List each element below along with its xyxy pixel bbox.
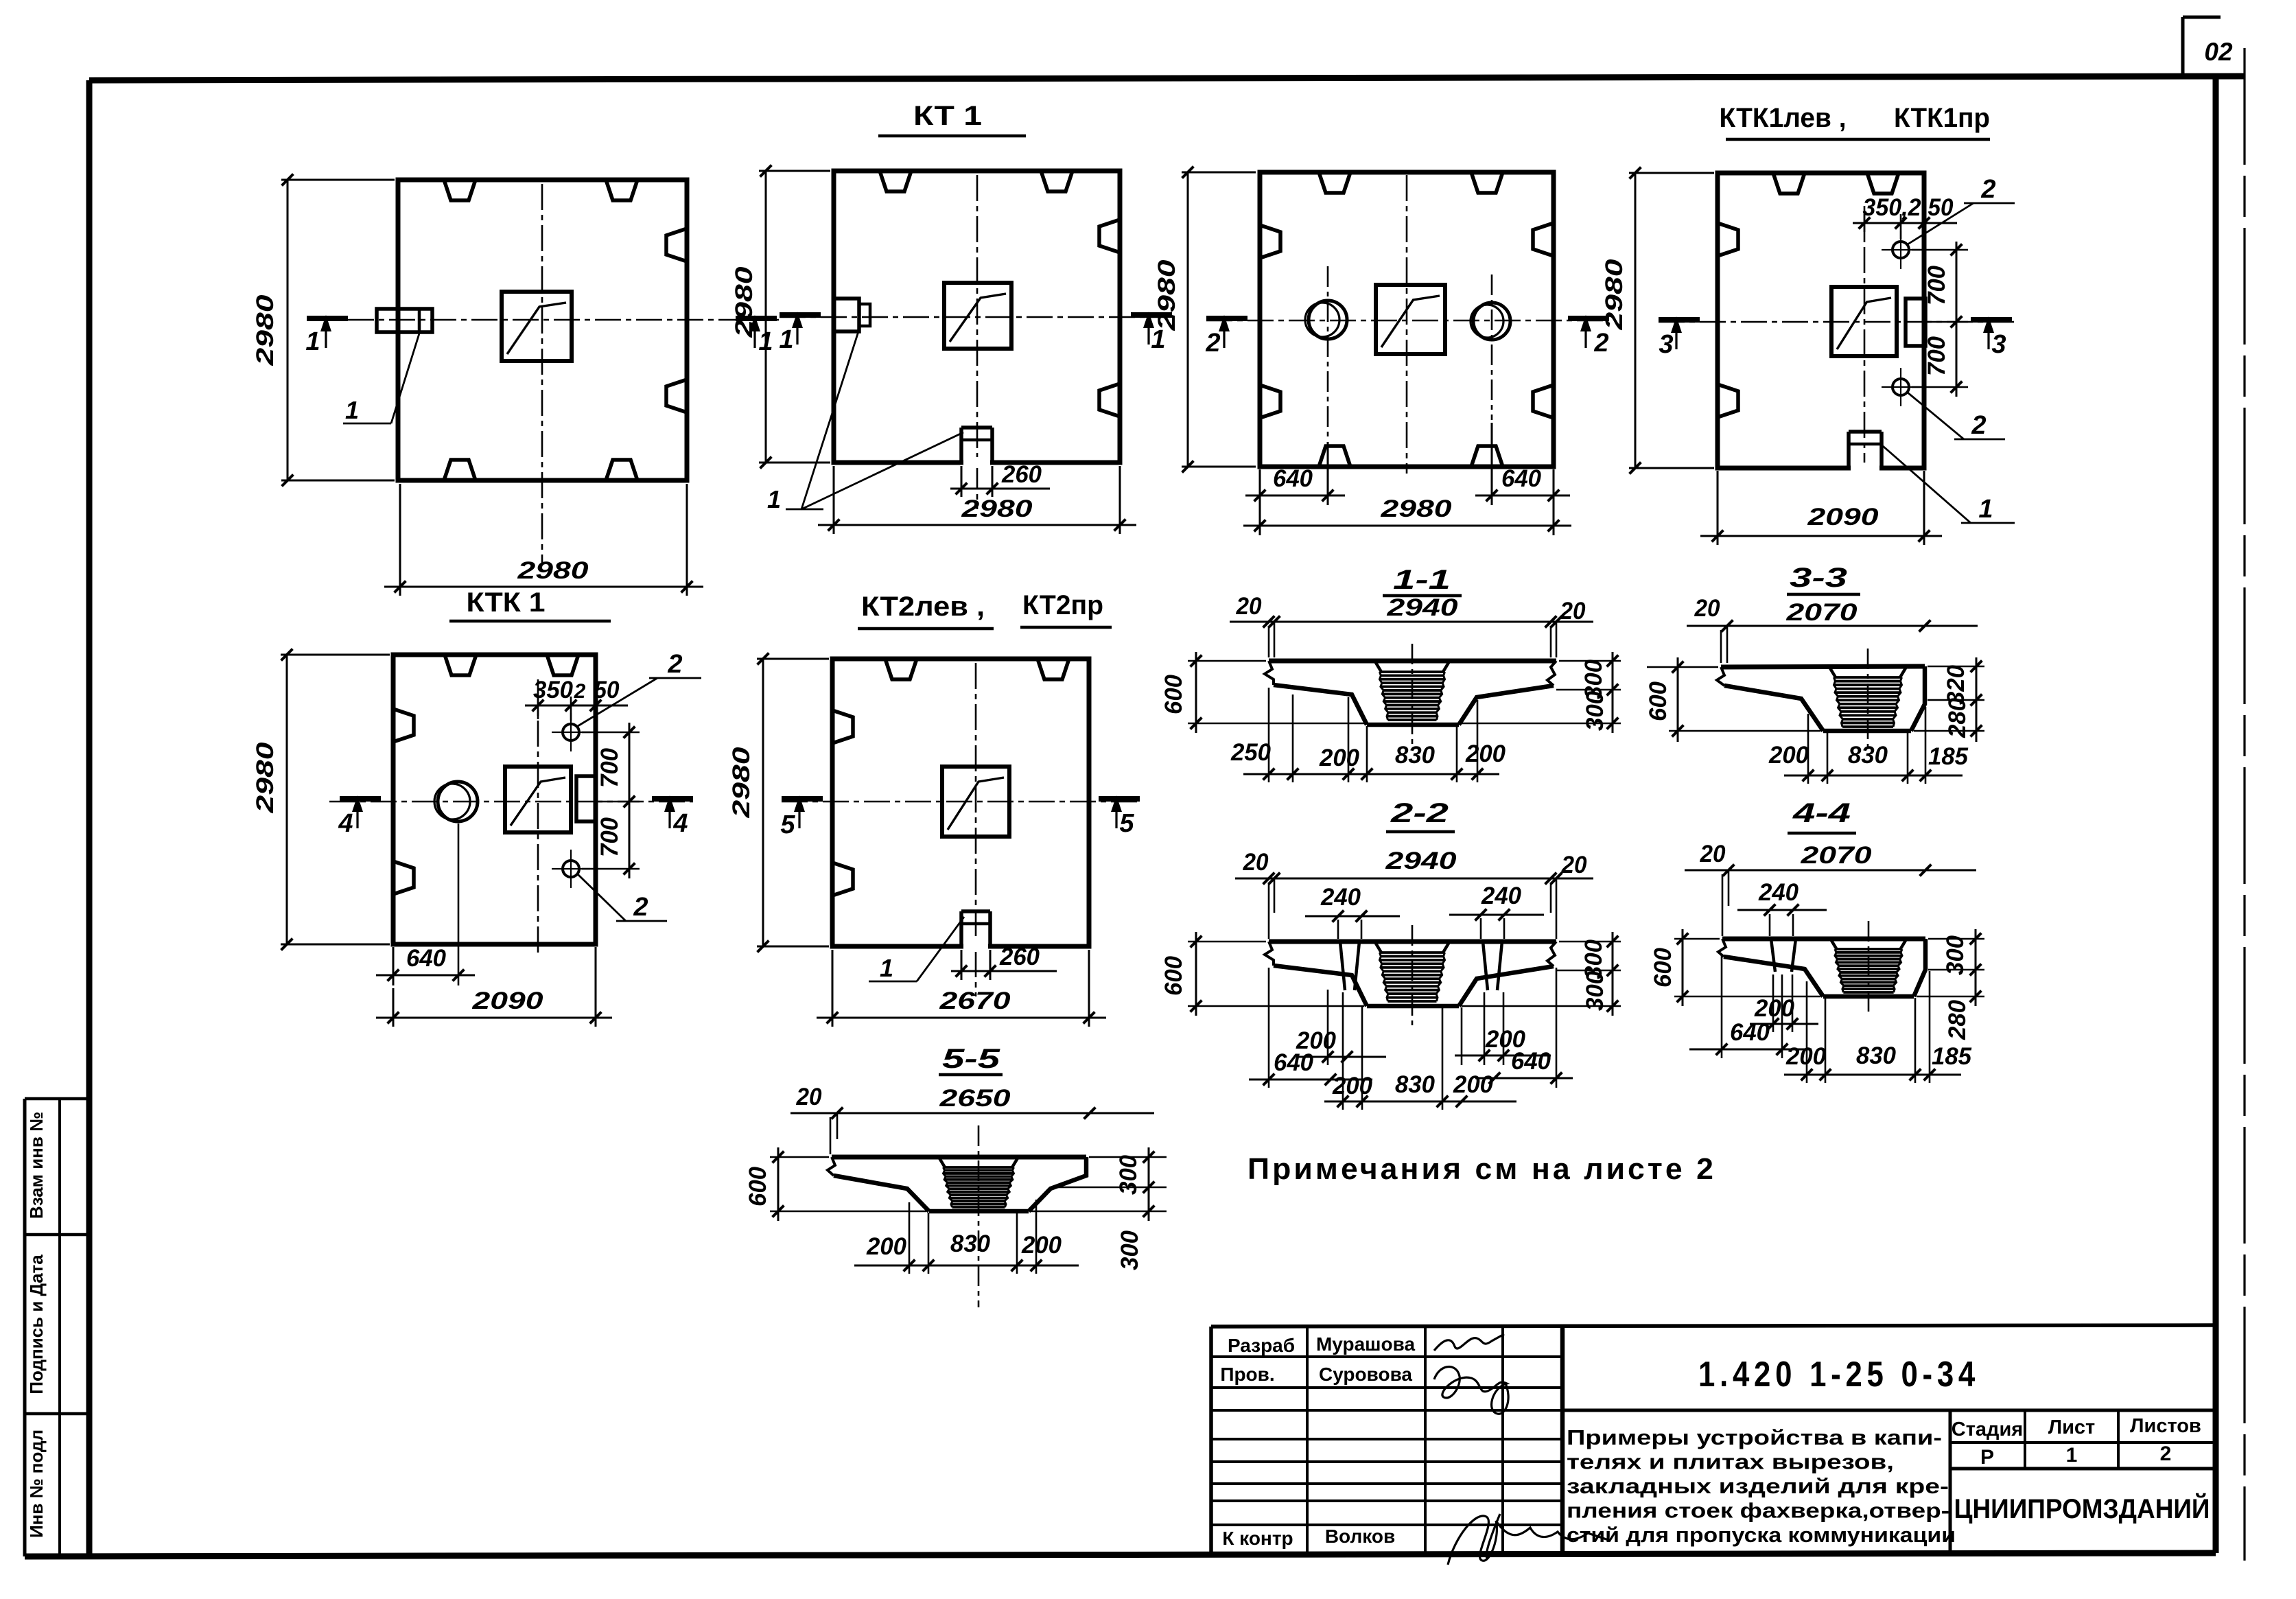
svg-text:2980: 2980 bbox=[252, 742, 279, 814]
svg-text:640: 640 bbox=[1511, 1048, 1551, 1075]
svg-text:50: 50 bbox=[594, 677, 620, 703]
svg-text:280: 280 bbox=[1944, 999, 1971, 1040]
svg-text:1: 1 bbox=[2066, 1444, 2078, 1467]
svg-text:Подпись и Дата: Подпись и Дата bbox=[26, 1254, 47, 1394]
svg-text:640: 640 bbox=[1274, 1049, 1314, 1076]
svg-text:200: 200 bbox=[1319, 745, 1360, 771]
svg-text:250: 250 bbox=[1230, 739, 1272, 766]
svg-text:2: 2 bbox=[1980, 175, 1995, 204]
svg-text:300: 300 bbox=[1115, 1154, 1142, 1195]
svg-text:20: 20 bbox=[1560, 598, 1586, 625]
svg-text:640: 640 bbox=[1273, 465, 1313, 492]
svg-text:ЦНИИПРОМЗДАНИЙ: ЦНИИПРОМЗДАНИЙ bbox=[1954, 1493, 2210, 1524]
svg-text:2980: 2980 bbox=[517, 557, 589, 584]
svg-text:Взам инв №: Взам инв № bbox=[26, 1112, 47, 1219]
svg-text:2070: 2070 bbox=[1785, 599, 1858, 626]
svg-text:КТ 1: КТ 1 bbox=[913, 101, 982, 131]
svg-text:185: 185 bbox=[1928, 743, 1969, 770]
svg-text:2090: 2090 bbox=[1807, 504, 1879, 530]
svg-text:200: 200 bbox=[1465, 740, 1506, 767]
svg-text:260: 260 bbox=[999, 944, 1040, 970]
svg-text:пления стоек фахверка,отвер-: пления стоек фахверка,отвер- bbox=[1567, 1499, 1949, 1523]
svg-text:1.420 1-25 0-34: 1.420 1-25 0-34 bbox=[1698, 1355, 1980, 1394]
svg-text:К контр: К контр bbox=[1222, 1528, 1293, 1549]
svg-text:Листов: Листов bbox=[2130, 1415, 2201, 1437]
svg-text:20: 20 bbox=[796, 1084, 822, 1110]
svg-text:2: 2 bbox=[667, 650, 682, 679]
svg-text:2: 2 bbox=[1971, 411, 1986, 440]
svg-text:640: 640 bbox=[406, 945, 447, 972]
svg-text:1: 1 bbox=[779, 325, 793, 354]
svg-text:Примеры устройства в капи-: Примеры устройства в капи- bbox=[1567, 1425, 1942, 1449]
svg-text:2: 2 bbox=[633, 893, 648, 922]
svg-text:600: 600 bbox=[1160, 955, 1187, 996]
svg-text:830: 830 bbox=[1395, 1071, 1436, 1098]
svg-text:Волков: Волков bbox=[1325, 1526, 1395, 1547]
svg-text:830: 830 bbox=[1856, 1042, 1897, 1069]
svg-text:КТК1лев ,: КТК1лев , bbox=[1720, 103, 1847, 133]
svg-text:КТК1пр: КТК1пр bbox=[1894, 103, 1990, 133]
svg-text:640: 640 bbox=[1501, 465, 1542, 492]
svg-text:Стадия: Стадия bbox=[1952, 1419, 2023, 1440]
svg-text:600: 600 bbox=[1645, 681, 1672, 721]
svg-text:600: 600 bbox=[745, 1166, 771, 1206]
svg-text:5: 5 bbox=[1119, 809, 1134, 838]
svg-text:240: 240 bbox=[1320, 884, 1361, 911]
svg-text:830: 830 bbox=[1848, 742, 1888, 769]
svg-text:640: 640 bbox=[1730, 1019, 1770, 1046]
svg-text:185: 185 bbox=[1932, 1043, 1972, 1070]
svg-text:2: 2 bbox=[1593, 329, 1608, 358]
svg-text:20: 20 bbox=[1694, 595, 1720, 622]
svg-text:2980: 2980 bbox=[252, 294, 279, 366]
svg-text:2650: 2650 bbox=[939, 1085, 1011, 1112]
svg-text:2940: 2940 bbox=[1386, 594, 1458, 621]
svg-text:Примечания см на листе 2: Примечания см на листе 2 bbox=[1247, 1152, 1716, 1186]
svg-text:200: 200 bbox=[866, 1233, 907, 1260]
svg-text:2980: 2980 bbox=[1153, 259, 1180, 331]
svg-text:300: 300 bbox=[1942, 935, 1969, 975]
svg-text:1-1: 1-1 bbox=[1393, 565, 1451, 595]
svg-text:2: 2 bbox=[574, 680, 586, 703]
svg-text:Р: Р bbox=[1980, 1446, 1994, 1469]
svg-text:20: 20 bbox=[1243, 849, 1269, 876]
svg-text:200: 200 bbox=[1754, 995, 1795, 1022]
svg-text:830: 830 bbox=[1395, 742, 1436, 769]
svg-text:2-2: 2-2 bbox=[1390, 798, 1449, 828]
svg-text:Пров.: Пров. bbox=[1220, 1364, 1274, 1385]
svg-text:1: 1 bbox=[880, 954, 893, 982]
svg-text:5-5: 5-5 bbox=[942, 1044, 1000, 1074]
svg-text:2980: 2980 bbox=[1380, 495, 1452, 522]
svg-text:350: 350 bbox=[533, 677, 574, 703]
svg-text:240: 240 bbox=[1758, 879, 1799, 906]
svg-text:Мурашова: Мурашова bbox=[1316, 1333, 1415, 1355]
svg-text:Лист: Лист bbox=[2048, 1416, 2096, 1438]
svg-text:600: 600 bbox=[1650, 947, 1676, 988]
svg-text:700: 700 bbox=[596, 817, 623, 857]
svg-text:телях и плитах вырезов,: телях и плитах вырезов, bbox=[1567, 1450, 1894, 1474]
svg-text:2: 2 bbox=[2160, 1443, 2172, 1465]
svg-text:КТК 1: КТК 1 bbox=[467, 587, 546, 618]
svg-text:700: 700 bbox=[596, 747, 623, 788]
svg-text:700: 700 bbox=[1923, 336, 1950, 376]
svg-text:2980: 2980 bbox=[728, 747, 755, 819]
svg-text:Инв № подл: Инв № подл bbox=[26, 1429, 47, 1538]
svg-text:4: 4 bbox=[672, 809, 688, 838]
svg-text:1: 1 bbox=[767, 485, 781, 513]
svg-text:1: 1 bbox=[345, 396, 359, 424]
svg-text:2: 2 bbox=[1205, 329, 1220, 358]
svg-text:4-4: 4-4 bbox=[1792, 798, 1851, 828]
svg-text:3: 3 bbox=[1659, 330, 1673, 359]
svg-text:200: 200 bbox=[1785, 1043, 1827, 1070]
svg-text:200: 200 bbox=[1332, 1073, 1373, 1099]
svg-text:3-3: 3-3 bbox=[1790, 563, 1847, 593]
svg-text:02: 02 bbox=[2204, 38, 2233, 66]
svg-text:1: 1 bbox=[1978, 495, 1993, 524]
svg-text:2980: 2980 bbox=[731, 266, 758, 338]
svg-text:КТ2лев ,: КТ2лев , bbox=[861, 592, 985, 622]
svg-text:стий для пропуска коммуникации: стий для пропуска коммуникации bbox=[1567, 1523, 1956, 1547]
svg-text:300: 300 bbox=[1582, 690, 1608, 731]
svg-text:1: 1 bbox=[305, 327, 320, 356]
svg-text:2940: 2940 bbox=[1385, 848, 1457, 874]
svg-text:Суровова: Суровова bbox=[1319, 1364, 1412, 1385]
svg-text:4: 4 bbox=[338, 809, 353, 838]
svg-text:260: 260 bbox=[1001, 461, 1042, 488]
svg-text:830: 830 bbox=[950, 1230, 991, 1257]
svg-text:Разраб: Разраб bbox=[1228, 1335, 1295, 1356]
svg-text:200: 200 bbox=[1768, 742, 1809, 769]
svg-text:20: 20 bbox=[1700, 841, 1726, 867]
svg-text:300: 300 bbox=[1582, 970, 1608, 1011]
svg-text:2980: 2980 bbox=[1601, 259, 1628, 331]
svg-text:5: 5 bbox=[780, 810, 795, 839]
svg-text:200: 200 bbox=[1453, 1071, 1494, 1098]
svg-text:280: 280 bbox=[1944, 697, 1971, 738]
svg-text:350,2: 350,2 bbox=[1863, 194, 1922, 221]
svg-text:20: 20 bbox=[1561, 852, 1587, 878]
svg-text:20: 20 bbox=[1236, 593, 1262, 620]
svg-text:КТ2пр: КТ2пр bbox=[1022, 590, 1103, 620]
svg-text:2980: 2980 bbox=[961, 495, 1033, 522]
svg-text:2670: 2670 bbox=[939, 988, 1011, 1014]
svg-text:2090: 2090 bbox=[471, 988, 543, 1014]
svg-text:2070: 2070 bbox=[1800, 842, 1872, 869]
svg-text:240: 240 bbox=[1481, 883, 1522, 909]
svg-text:закладных изделий для кре-: закладных изделий для кре- bbox=[1567, 1474, 1949, 1498]
svg-text:300: 300 bbox=[1116, 1230, 1143, 1270]
svg-text:3: 3 bbox=[1991, 330, 2006, 359]
svg-text:200: 200 bbox=[1021, 1232, 1062, 1259]
svg-text:600: 600 bbox=[1160, 674, 1187, 714]
svg-text:700: 700 bbox=[1923, 265, 1950, 305]
